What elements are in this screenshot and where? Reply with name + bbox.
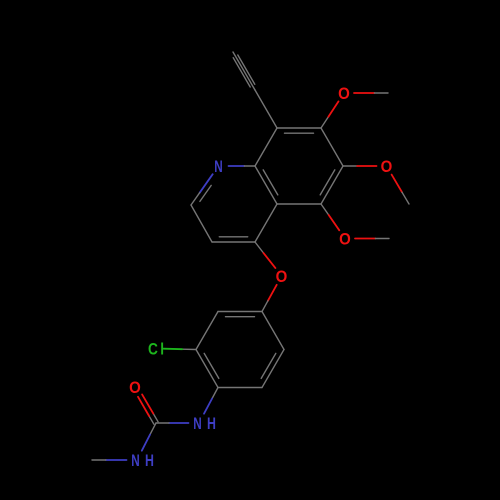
wire CCl-Cl bbox=[182, 348, 196, 350]
wire N1-C2 bbox=[200, 174, 213, 193]
wire C6-O2 bbox=[343, 165, 357, 167]
wire Cu=O5 line2 bbox=[149, 416, 154, 424]
wire Cu=O5 line1 bbox=[153, 414, 158, 422]
wire C3-C4 bbox=[212, 241, 255, 243]
wire CCl-Ct bbox=[196, 312, 218, 350]
wire Nm-MeU bbox=[106, 459, 127, 461]
wire N1-C8a bbox=[229, 165, 245, 167]
wire double N1=C2 inner bbox=[200, 185, 211, 201]
wire Ca#Cb parallel 2 bbox=[233, 58, 250, 87]
wire double CO=Ct inner bbox=[226, 316, 255, 318]
wire C5-C4a bbox=[277, 203, 321, 205]
svg-text:H: H bbox=[145, 452, 154, 470]
wire double CCl=CNH inner bbox=[204, 353, 219, 378]
wire double Cb2=Cr inner bbox=[261, 353, 276, 378]
wire CNH-Na bbox=[212, 388, 218, 399]
wire C8-C7 bbox=[277, 127, 321, 129]
wire double C5=C6 inner bbox=[320, 170, 335, 195]
wire C4-C4a bbox=[255, 204, 277, 242]
svg-text:N: N bbox=[131, 452, 139, 470]
svg-text:C: C bbox=[148, 340, 158, 358]
wire C8-Ca bbox=[255, 90, 277, 128]
wire O2-Me2 bbox=[392, 175, 402, 193]
wire CO-Cr bbox=[262, 312, 284, 350]
wire double C4a=C8a inner bbox=[263, 170, 278, 195]
wire C4-O4 bbox=[255, 242, 264, 253]
wire Ca#Cb parallel bbox=[238, 55, 255, 84]
wire C8a-C8 bbox=[255, 128, 277, 166]
wire Ca-Cb triple bbox=[233, 52, 255, 90]
svg-text:H: H bbox=[207, 415, 216, 433]
wire C4a-C8a bbox=[255, 166, 277, 204]
wire Cb2-CNH bbox=[218, 387, 262, 389]
svg-text:l: l bbox=[160, 340, 164, 358]
wire CNH-CCl bbox=[196, 350, 218, 388]
svg-text:N: N bbox=[193, 415, 201, 433]
wire C7-O1 bbox=[321, 117, 328, 128]
svg-text:O: O bbox=[338, 85, 350, 103]
wire O1-Me1 bbox=[354, 92, 374, 94]
wire C2-C3 bbox=[191, 205, 212, 242]
svg-text:O: O bbox=[129, 379, 141, 397]
svg-text:O: O bbox=[339, 231, 351, 249]
svg-text:O: O bbox=[276, 268, 288, 286]
wire C5-O3 bbox=[321, 204, 329, 215]
svg-text:N: N bbox=[214, 158, 222, 176]
wire Ct-CO bbox=[218, 311, 262, 313]
wire O3-Me3 bbox=[355, 238, 375, 240]
wire double C7=C8 inner bbox=[285, 132, 314, 134]
wire Cu-Nm bbox=[150, 423, 156, 435]
wire Na-Cu bbox=[169, 422, 189, 424]
wire O4-CO bbox=[268, 285, 277, 301]
svg-text:O: O bbox=[381, 158, 393, 176]
wire double C3=C4 inner bbox=[219, 236, 247, 238]
wire C6-C5 bbox=[321, 166, 343, 204]
wire Cr-Cb2 bbox=[262, 350, 284, 388]
wire C7-C6 bbox=[321, 128, 343, 166]
